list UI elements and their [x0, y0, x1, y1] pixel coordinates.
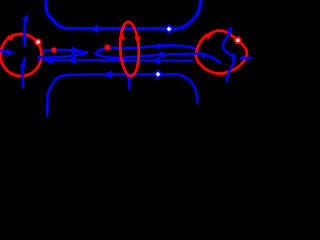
arrowhead down on it — [20, 65, 26, 73]
trajectory out of middle cycle bottom — [128, 77, 131, 90]
arrowhead on left cycle (red, up-right) — [7, 33, 15, 41]
trajectory top into right cycle (S-sweep) — [223, 27, 234, 82]
trajectory top into left cycle — [24, 15, 27, 47]
trajectory out of right cycle to the right — [240, 57, 252, 60]
trajectory L4 bottom long line with drains — [47, 74, 197, 117]
arrowhead left on L4 — [103, 71, 112, 79]
white semi-stable point on left cycle — [34, 38, 42, 46]
white semi-stable point on right cycle — [234, 37, 242, 45]
arrowhead left on big loop bottom — [155, 51, 164, 58]
tick below-left of small loop — [39, 56, 40, 61]
arrowhead down on middle cycle right side — [134, 37, 141, 45]
arrowhead down (upper) — [23, 18, 29, 25]
arrowhead right on it — [201, 52, 209, 58]
arrowhead right — [8, 49, 15, 55]
trajectory bottom out of left cycle — [22, 58, 24, 89]
trajectory L3 middle long line — [45, 59, 194, 62]
arrowhead right on small loop — [72, 47, 81, 54]
big blue loop bottom edge — [95, 53, 197, 57]
arrowhead left on L3 (x70) — [67, 57, 76, 65]
open diamond marker on L1 — [164, 24, 174, 34]
end arrowhead left on L3 — [44, 56, 53, 64]
left red cycle — [1, 34, 42, 76]
right red cycle — [196, 30, 247, 73]
small blue loop bottom edge — [39, 53, 89, 58]
arrowhead on right cycle (red, up-right) — [204, 32, 213, 40]
trajectory L1 top long line — [46, 0, 201, 29]
arrowhead up on middle cycle left side — [118, 32, 125, 40]
arrowhead down on it — [126, 76, 132, 83]
red equilibrium dot on small loop — [51, 47, 57, 53]
arrowhead right on it — [242, 55, 248, 61]
small blue loop top edge — [43, 50, 88, 53]
arrowhead left on L3 (x156) — [151, 57, 160, 65]
arrowhead left on big loop top — [150, 43, 160, 49]
arrowhead down-right mid — [230, 54, 236, 61]
middle red cycle (tall ellipse) — [119, 22, 140, 77]
arrowhead down (inner) — [22, 36, 28, 44]
open diamond marker on L4 — [153, 69, 163, 79]
arrowhead down on its top — [227, 29, 233, 37]
red equilibrium dot on big loop — [105, 44, 111, 50]
big blue loop top edge — [95, 45, 196, 53]
trajectory left stub into left cycle — [0, 51, 9, 52]
trajectory into right cycle from left — [196, 53, 221, 63]
arrowhead on L1 pointing left — [90, 24, 99, 33]
